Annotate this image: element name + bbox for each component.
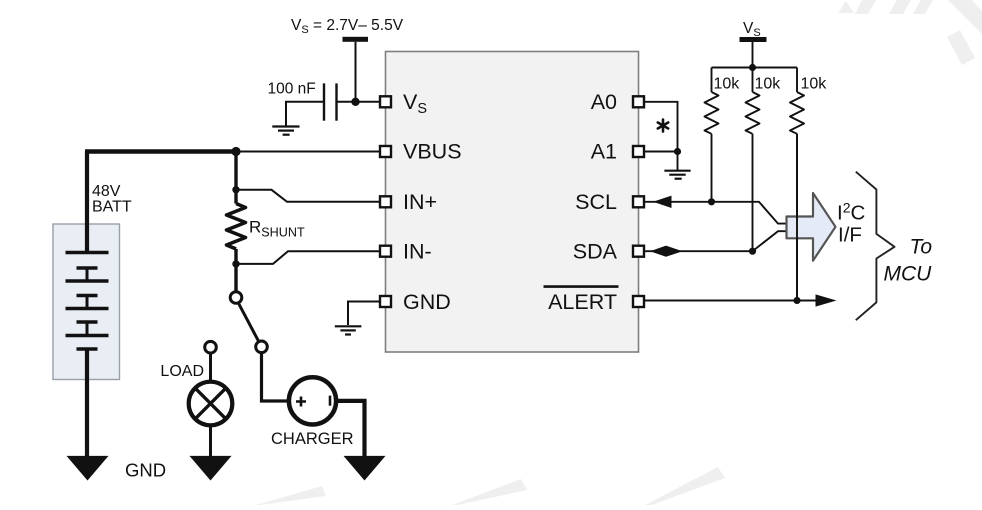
charger source G1 [289, 377, 336, 424]
pin SDA [633, 246, 644, 257]
brace to MCU [856, 172, 895, 321]
svg-text:I2C: I2C [837, 199, 866, 224]
switch S1 pole [230, 292, 242, 304]
wire IN+ tap to IN+ pin [236, 190, 379, 202]
wire shunt bottom to switch [234, 249, 237, 291]
junction VBUS node [231, 147, 240, 156]
svg-text:100 nF: 100 nF [268, 81, 316, 98]
wire node to ground [677, 152, 679, 171]
wire node to VBUS pin [236, 151, 379, 153]
wire switch to charger [262, 354, 288, 401]
svg-text:A1: A1 [591, 140, 617, 164]
svg-text:GND: GND [125, 459, 166, 480]
switch blade [239, 304, 259, 342]
wire battery bottom lead [85, 349, 89, 458]
pin IN+ [380, 196, 391, 207]
junction ALERT / R4 [793, 297, 800, 304]
ground (A1) [664, 171, 690, 179]
pin VS [380, 96, 391, 107]
svg-text:SDA: SDA [573, 240, 618, 264]
bidirectional diamond on SDA [650, 246, 683, 257]
ground (GND pin) [348, 302, 379, 326]
junction SDA / R3 [749, 248, 756, 255]
junction at Vs pin node [351, 98, 359, 106]
ground arrow (charger) [344, 456, 386, 481]
supply bar VS (top left) [343, 37, 369, 42]
wire junction to Vs pin [356, 101, 380, 103]
pin A0 [633, 96, 644, 107]
block arrow I2C I/F [787, 193, 836, 261]
pin VBUS [380, 146, 391, 157]
switch throw (charger side) [256, 341, 268, 353]
wire SDA net [645, 231, 787, 251]
charger minus tick [329, 396, 332, 406]
svg-text:ALERT: ALERT [548, 290, 617, 314]
svg-text:48V: 48V [92, 183, 121, 200]
ground arrow (load) [190, 456, 232, 481]
svg-text:IN-: IN- [403, 240, 432, 264]
wire rail to R2 top [711, 68, 713, 93]
wire charger to ground [337, 401, 365, 458]
supply bar VS (pull-ups) [740, 37, 767, 42]
capacitor C1 100 nF [324, 83, 337, 120]
svg-text:VS = 2.7V– 5.5V: VS = 2.7V– 5.5V [291, 17, 404, 36]
svg-text:10k: 10k [714, 76, 741, 93]
battery cells [66, 253, 109, 350]
watermark swooshes (background) [256, 0, 982, 505]
arrowhead into SCL pin [653, 196, 672, 208]
IC U1 body [386, 52, 639, 353]
junction IN- tap [232, 260, 239, 267]
load terminal circle [205, 341, 217, 353]
svg-text:I/F: I/F [838, 224, 862, 247]
junction rail node [749, 64, 756, 71]
pin IN- [380, 246, 391, 257]
wire cap left plate to ground [286, 102, 323, 126]
wire battery top lead [85, 152, 89, 253]
ground arrow (battery) [67, 456, 109, 481]
resistor R3 10k (SDA pull-up) [746, 92, 760, 134]
ground (under capacitor) [272, 127, 299, 135]
supply label Vs = 2.7V - 5.5V [291, 17, 404, 36]
pin GND [380, 296, 391, 307]
svg-text:To: To [910, 236, 933, 259]
wire lamp to ground [209, 426, 212, 458]
pin ALERT [633, 296, 644, 307]
svg-text:10k: 10k [801, 76, 828, 93]
resistor R2 10k (SCL pull-up) [705, 92, 719, 134]
wire ALERT net [645, 300, 818, 302]
wire R2 bottom to SCL [711, 134, 713, 202]
resistor R4 10k (ALERT pull-up) [790, 92, 804, 134]
wire R3 bottom to SDA [752, 134, 754, 251]
arrowhead ALERT output [816, 294, 837, 306]
wire SCL net [645, 202, 787, 224]
svg-text:MCU: MCU [884, 263, 933, 286]
wire rail to R3 top [752, 68, 754, 93]
lamp LOAD [189, 382, 233, 426]
svg-text:10k: 10k [755, 76, 782, 93]
wire A1 to node [645, 151, 678, 153]
wire node down to shunt top [234, 152, 237, 204]
svg-text:VBUS: VBUS [403, 140, 462, 164]
svg-text:A0: A0 [591, 90, 617, 114]
pin A1 [633, 146, 644, 157]
wire thick bus battery to shunt node [85, 149, 236, 154]
wire R4 bottom to ALERT [796, 134, 798, 301]
svg-text:LOAD: LOAD [160, 363, 204, 380]
wire R4 over arrow [796, 134, 798, 301]
junction A1 node [674, 148, 681, 155]
wire pull-up rail [712, 67, 798, 69]
svg-text:SCL: SCL [575, 190, 617, 214]
battery B1 body [53, 224, 120, 380]
svg-text:GND: GND [403, 290, 451, 314]
charger plus sign [296, 397, 306, 407]
wire cap right plate to supply node [338, 101, 356, 103]
junction SCL / R2 [708, 198, 715, 205]
wire supply bar to Vs pin [355, 42, 357, 102]
junction shunt top / IN+ tap [232, 186, 239, 193]
wire rail to R4 top [796, 68, 798, 93]
svg-text:IN+: IN+ [403, 190, 437, 214]
pin SCL [633, 196, 644, 207]
resistor R_SHUNT [227, 204, 246, 249]
svg-text:BATT: BATT [92, 199, 132, 216]
wire supply to rail [752, 42, 754, 68]
wire A0 to A1 node [645, 102, 678, 152]
svg-text:CHARGER: CHARGER [271, 430, 354, 448]
wire IN- tap to IN- pin [236, 251, 379, 264]
wire load terminal to lamp [209, 354, 212, 381]
note asterisk [658, 120, 668, 132]
